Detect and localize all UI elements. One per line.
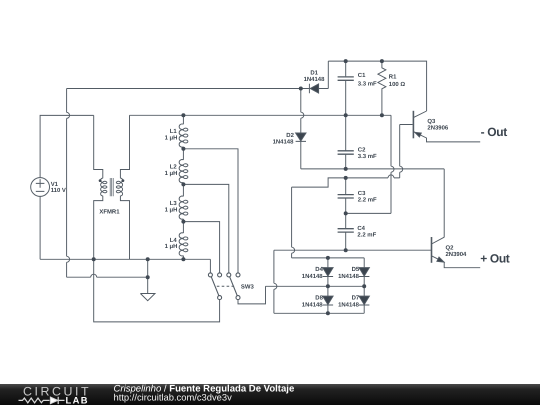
wire hop vertical x66 over y259: [67, 256, 70, 262]
node L3 tap: [181, 220, 185, 224]
svg-text:L2: L2: [170, 164, 178, 171]
switch SW3 contacts: [208, 273, 240, 300]
voltage source V1: [31, 178, 50, 197]
switch SW3 coupling dashed: [217, 285, 235, 287]
svg-text:XFMR1: XFMR1: [99, 209, 120, 216]
node D4 top: [326, 256, 330, 260]
wire Q2 base row y250: [274, 249, 431, 251]
inductor L3: [179, 196, 188, 219]
wire Q3 base net drop x291.6: [291, 187, 293, 258]
inductor L2: [179, 160, 188, 183]
wire L3-L4 link: [182, 219, 184, 233]
svg-text:Q3: Q3: [427, 118, 436, 125]
svg-text:L4: L4: [170, 237, 178, 244]
wire hop horizontal y178 over x391: [388, 175, 394, 178]
diode D5: [359, 258, 369, 286]
wire V1 bottom lead: [39, 196, 41, 259]
wire Q3 base net horizontal y178: [292, 178, 400, 187]
node L2 tap: [181, 182, 185, 186]
svg-text:1N4148: 1N4148: [304, 76, 325, 83]
wire ground horizontal y277: [67, 276, 148, 278]
svg-text:1 μH: 1 μH: [165, 170, 178, 177]
node ground junction lower: [146, 275, 150, 279]
wire L1 tap: [183, 149, 238, 273]
switch SW3 lever 1: [211, 277, 219, 296]
svg-text:R1: R1: [389, 73, 397, 80]
diode D2: [296, 133, 306, 169]
inductor L1: [179, 115, 188, 147]
wire top rail H1 y88.5: [67, 88, 310, 90]
transformer XFMR1 left winding: [101, 178, 107, 196]
wire top rail y61: [328, 61, 426, 111]
wire L2-L3 link: [182, 183, 184, 197]
node ground junction top: [146, 257, 150, 261]
wire bridge top rail y258: [292, 257, 365, 259]
svg-text:1N4148: 1N4148: [273, 139, 294, 146]
wire hop vertical A over y169: [391, 166, 394, 172]
svg-text:1 μH: 1 μH: [165, 207, 178, 214]
svg-text:D5: D5: [352, 266, 360, 273]
wire bridge bottom rail y313: [274, 312, 364, 314]
node C3 top: [344, 176, 348, 180]
wire secondary row y115: [130, 114, 392, 116]
diode D1: [309, 61, 328, 93]
footer bar: [0, 384, 540, 405]
node C4 bottom: [344, 248, 348, 252]
wire L3 tap: [183, 222, 219, 273]
wire L4 bottom link: [182, 256, 184, 260]
svg-text:V1: V1: [51, 181, 59, 188]
wire hop vertical x66 over y115: [67, 112, 70, 118]
node D5 D7 midpoint: [362, 284, 366, 288]
svg-text:1 μH: 1 μH: [165, 243, 178, 250]
svg-text:C2: C2: [358, 147, 366, 154]
capacitor C1: [338, 61, 354, 115]
wire bridge left vertical x274: [273, 250, 275, 313]
node C1 top: [344, 59, 348, 63]
svg-text:1N4148: 1N4148: [338, 302, 359, 309]
svg-text:http://circuitlab.com/c3dve3v: http://circuitlab.com/c3dve3v: [114, 392, 233, 403]
diode D4: [323, 258, 333, 286]
svg-text:100 Ω: 100 Ω: [389, 81, 406, 88]
diode D8: [323, 286, 333, 313]
wire row end drop to SW3 contact: [209, 259, 211, 273]
wire bridge middle row y286: [266, 285, 365, 287]
transformer XFMR1 left pin bottom: [94, 196, 103, 259]
ground: [140, 259, 155, 300]
node L1 top: [181, 113, 185, 117]
node D4 D8 midpoint: [326, 284, 330, 288]
transistor Q3: [400, 111, 481, 142]
svg-text:2N3904: 2N3904: [446, 251, 467, 258]
node D8 bottom: [326, 311, 330, 315]
wire hop vertical x300.8 over y115: [301, 112, 304, 118]
svg-text:- Out: - Out: [481, 125, 508, 139]
svg-text:110 V: 110 V: [51, 187, 66, 194]
svg-text:L3: L3: [170, 200, 178, 207]
svg-text:3.3 mF: 3.3 mF: [358, 153, 377, 160]
resistor R1: [378, 61, 386, 115]
transformer phase dot left: [99, 179, 102, 182]
svg-text:1N4148: 1N4148: [338, 273, 359, 280]
wire L1-L2 link: [182, 147, 184, 160]
capacitor C2: [338, 115, 354, 169]
node L1 tap: [181, 147, 185, 151]
wire left tall vertical (top rail drop): [66, 89, 68, 278]
transformer XFMR1 right pin top: [120, 115, 129, 178]
svg-text:1N4148: 1N4148: [302, 302, 323, 309]
transistor Q2: [432, 237, 481, 268]
svg-text:L1: L1: [170, 128, 178, 135]
svg-text:LAB: LAB: [66, 394, 89, 405]
svg-text:D1: D1: [310, 69, 318, 76]
node C1 bottom: [344, 113, 348, 117]
transformer XFMR1 left pin top: [94, 115, 103, 178]
wire C2 bottom row y169: [301, 168, 444, 170]
transformer XFMR1 core: [110, 178, 113, 196]
svg-text:1 μH: 1 μH: [165, 135, 178, 142]
svg-text:2N3906: 2N3906: [427, 124, 448, 131]
node top rail / D1 junction: [299, 87, 303, 91]
svg-text:C1: C1: [358, 72, 366, 79]
wire bottom row y259: [40, 258, 210, 260]
svg-text:SW3: SW3: [241, 284, 255, 291]
wire Q3 base net vertical B: [399, 125, 401, 178]
svg-text:D4: D4: [315, 266, 323, 273]
wire bottom rail y322: [94, 259, 220, 322]
svg-text:3.3 mF: 3.3 mF: [358, 80, 377, 87]
inductor L4: [179, 233, 188, 256]
node R1 bottom: [380, 113, 384, 117]
wire hop vertical x291.6 over y250: [292, 247, 295, 253]
capacitor C3: [338, 178, 354, 214]
svg-text:C3: C3: [358, 190, 366, 197]
node C2 bottom: [344, 167, 348, 171]
wire D1 D2 vertical x300.8: [300, 89, 302, 134]
svg-text:D8: D8: [315, 294, 323, 301]
wire Q2 collector vertical: [443, 169, 445, 238]
svg-text:1N4148: 1N4148: [302, 273, 323, 280]
wire hop vertical x274 over y286: [274, 283, 277, 289]
node L4 bottom: [181, 257, 185, 261]
wire L2 tap: [183, 184, 228, 273]
transformer XFMR1 right winding: [116, 178, 122, 196]
wire hop horizontal y277 over x93.7: [91, 274, 97, 277]
node C3 bottom: [344, 211, 348, 215]
node R1 top: [380, 59, 384, 63]
svg-text:Q2: Q2: [446, 244, 455, 251]
transformer XFMR1 right pin bottom: [120, 196, 129, 259]
footer logo resistor-diode glyph: [19, 397, 65, 404]
svg-text:D7: D7: [352, 294, 360, 301]
svg-text:+ Out: + Out: [480, 252, 510, 266]
transformer phase dot right: [122, 179, 125, 182]
diode D7: [359, 286, 369, 313]
switch SW3 lever 2: [230, 277, 238, 296]
wire hop vertical B over y169: [400, 166, 403, 172]
wire V1 top lead: [40, 115, 94, 177]
svg-text:2.2 mF: 2.2 mF: [357, 232, 376, 239]
wire vertical A x391: [346, 115, 391, 213]
wire SW3 pole 2 to bridge: [238, 286, 266, 304]
node V1 bottom junction: [92, 257, 96, 261]
svg-text:C4: C4: [357, 225, 365, 232]
capacitor C4: [338, 213, 354, 250]
svg-text:D2: D2: [286, 132, 294, 139]
svg-text:2.2 mF: 2.2 mF: [358, 197, 377, 204]
